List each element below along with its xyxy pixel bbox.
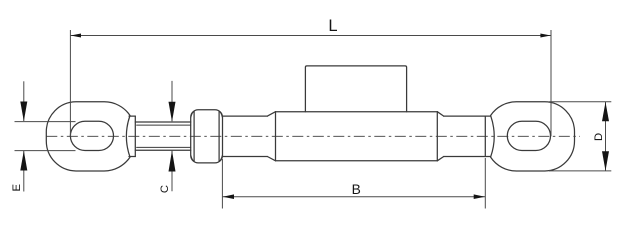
svg-text:D: D [593, 133, 605, 141]
svg-text:B: B [352, 182, 361, 197]
svg-text:L: L [328, 17, 337, 35]
svg-text:E: E [11, 183, 23, 191]
svg-text:C: C [159, 185, 171, 193]
